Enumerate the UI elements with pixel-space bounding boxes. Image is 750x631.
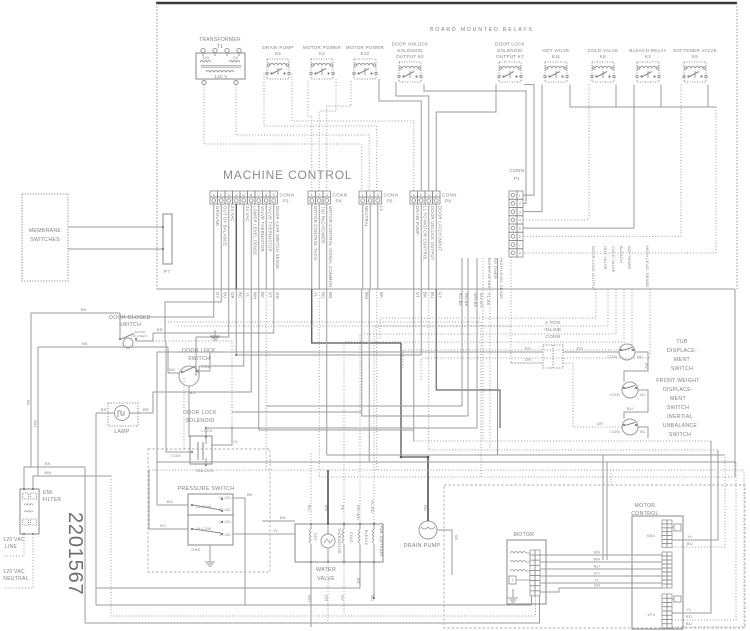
svg-text:OR: OR [525,357,532,362]
svg-text:GY: GY [160,523,166,528]
svg-text:K11: K11 [552,54,561,59]
svg-text:WH: WH [44,470,51,475]
svg-text:CONN: CONN [280,193,295,198]
svg-text:L1: L1 [379,206,384,212]
svg-text:DOOR UNLOCK OUTPUT: DOOR UNLOCK OUTPUT [430,206,435,261]
svg-text:NC: NC [637,355,643,359]
svg-text:SOFTENER VALVE: SOFTENER VALVE [673,48,717,53]
svg-text:T1: T1 [217,44,223,50]
svg-text:MOTOR CONTROL SIGNAL COMMON: MOTOR CONTROL SIGNAL COMMON [328,206,333,287]
svg-text:THERMISTOR: THERMISTOR [337,528,341,554]
svg-text:NO: NO [169,367,176,372]
svg-text:CONN: CONN [510,168,525,173]
svg-text:7: 7 [519,243,521,247]
svg-text:GY: GY [215,292,220,299]
svg-text:BR: BR [157,327,163,332]
svg-text:PRESSURE SWITCH: PRESSURE SWITCH [178,486,235,492]
svg-text:COM: COM [171,454,181,458]
svg-text:CONN: CONN [545,334,561,340]
svg-text:BU: BU [686,621,692,626]
svg-text:RD: RD [577,346,583,351]
svg-text:COM: COM [610,393,620,397]
svg-text:17-NC: 17-NC [219,533,231,537]
svg-text:24V: 24V [202,56,210,60]
svg-text:L1 TO MOTOR CONTROL: L1 TO MOTOR CONTROL [422,206,427,261]
svg-text:NEUTRAL: NEUTRAL [3,576,28,582]
svg-text:K3: K3 [645,54,651,59]
svg-text:120 VAC: 120 VAC [3,537,25,543]
svg-text:VT: VT [267,292,272,298]
svg-text:BR: BR [356,578,361,584]
svg-text:EMI: EMI [43,490,53,496]
svg-text:24-NO: 24-NO [219,496,231,500]
svg-text:OUTPUT K7: OUTPUT K7 [496,54,524,59]
svg-text:WH: WH [593,557,600,562]
svg-text:BU: BU [594,564,600,569]
svg-text:24 VAC: 24 VAC [245,206,250,222]
svg-text:YL: YL [687,534,693,539]
svg-text:MENT: MENT [670,396,686,402]
svg-text:SOLENOID: SOLENOID [497,48,523,53]
svg-text:DOOR CLOSED: DOOR CLOSED [109,315,151,321]
svg-text:OR: OR [230,292,235,299]
svg-text:P6: P6 [387,199,393,204]
svg-text:TUB: TUB [676,339,688,345]
svg-text:K2: K2 [319,51,325,56]
svg-text:K5: K5 [275,51,281,56]
svg-text:TxD RxD POWER: TxD RxD POWER [320,206,325,243]
svg-text:VALVE THERMISTOR: VALVE THERMISTOR [260,206,265,252]
svg-text:SWITCH: SWITCH [667,405,689,411]
svg-text:GND: GND [191,548,200,552]
svg-text:RD: RD [237,292,242,299]
svg-text:YL: YL [245,292,250,298]
svg-text:DOOR UNLOCK: DOOR UNLOCK [392,42,429,47]
svg-text:MACHINE CONTROL: MACHINE CONTROL [223,168,352,182]
svg-text:RD: RD [525,346,531,351]
svg-text:DOOR LATCH INPUT: DOOR LATCH INPUT [437,206,442,251]
svg-text:SOFTENER: SOFTENER [627,246,632,269]
svg-text:BK: BK [260,292,265,298]
svg-text:BU: BU [627,406,633,411]
svg-text:VALVE: VALVE [317,576,335,582]
svg-text:T: T [511,578,514,583]
svg-text:FILTER: FILTER [43,497,62,503]
svg-text:HOT VALVE: HOT VALVE [542,48,569,53]
svg-text:RD-WH: RD-WH [356,505,361,520]
svg-text:COM: COM [607,355,617,359]
svg-text:BU: BU [430,292,435,298]
svg-text:BU-BK: BU-BK [458,293,463,306]
svg-text:TRANSFORMER: TRANSFORMER [199,37,241,43]
svg-text:BK: BK [81,307,87,312]
svg-text:P1: P1 [514,176,520,181]
svg-text:DISPLACE-: DISPLACE- [667,348,697,354]
svg-text:GY: GY [437,292,442,299]
svg-text:BK: BK [82,341,88,346]
svg-text:CONN: CONN [333,193,348,198]
svg-text:P7: P7 [164,269,170,274]
svg-text:LAMP: LAMP [114,429,130,435]
svg-text:6: 6 [519,235,521,239]
svg-text:BU: BU [222,292,227,298]
svg-text:WATER: WATER [316,567,336,573]
svg-text:GN: GN [275,292,280,299]
svg-text:RD: RD [423,505,428,511]
svg-text:SWITCH: SWITCH [669,432,691,438]
svg-text:BK: BK [422,292,427,298]
svg-text:2: 2 [519,202,521,206]
svg-text:BU: BU [687,541,693,546]
svg-text:BLEACH: BLEACH [619,246,624,263]
svg-text:FAB. SOFTENER: FAB. SOFTENER [379,526,383,557]
svg-text:GY: GY [594,571,600,576]
svg-text:COM: COM [610,430,620,434]
svg-text:MOTOR POWER: MOTOR POWER [346,45,385,50]
svg-text:HOT VALVE: HOT VALVE [603,246,608,270]
svg-text:CONN: CONN [384,193,399,198]
svg-text:120 VAC: 120 VAC [3,569,25,575]
svg-text:120 V: 120 V [215,74,228,79]
svg-text:BU: BU [167,499,173,504]
svg-text:BR: BR [101,407,107,412]
svg-text:YL: YL [233,439,239,444]
svg-text:WH: WH [364,292,369,300]
svg-text:MEMBRANE: MEMBRANE [29,228,62,234]
svg-text:P3: P3 [283,199,289,204]
svg-text:GY: GY [644,363,649,369]
svg-text:DOOR LOCK: DOOR LOCK [495,42,525,47]
svg-text:BK: BK [45,461,51,466]
svg-text:DRAIN PUMP: DRAIN PUMP [262,45,293,50]
svg-text:MOTOR: MOTOR [635,503,656,509]
svg-text:RD: RD [686,614,692,619]
svg-text:OUTPUT K4: OUTPUT K4 [396,54,424,59]
svg-text:FRONT WEIGHT: FRONT WEIGHT [656,378,700,384]
svg-text:NEUTRAL: NEUTRAL [364,206,369,228]
svg-text:4: 4 [519,219,521,223]
svg-text:SWITCH: SWITCH [188,356,210,362]
svg-text:JP4: JP4 [647,612,655,617]
svg-text:24 VAC: 24 VAC [230,206,235,222]
svg-text:2 POS: 2 POS [545,320,561,326]
svg-text:BK: BK [379,292,384,298]
svg-text:2V: 2V [234,56,239,60]
svg-text:K6: K6 [600,54,606,59]
svg-text:HIGH LEVEL SENSE: HIGH LEVEL SENSE [499,258,504,299]
svg-text:BU: BU [307,505,312,511]
svg-text:BK: BK [454,535,459,541]
svg-text:SOLENOID: SOLENOID [185,418,214,424]
svg-text:LINE: LINE [5,544,18,550]
svg-text:DOOR LOCK: DOOR LOCK [182,348,216,354]
svg-text:YL: YL [273,528,279,533]
svg-text:P4: P4 [336,199,342,204]
svg-text:INLINE: INLINE [544,327,561,333]
svg-text:OUT OF BALANCE: OUT OF BALANCE [222,206,227,246]
svg-text:PK: PK [340,505,345,511]
svg-text:MOTOR POWER: MOTOR POWER [303,45,342,50]
svg-text:XB4: XB4 [647,533,656,538]
svg-text:2201567: 2201567 [64,512,86,595]
svg-text:BK: BK [247,492,253,497]
svg-text:YL: YL [313,292,318,298]
svg-text:VT: VT [415,292,420,298]
svg-text:WH: WH [307,595,312,602]
svg-text:SWITCH: SWITCH [671,366,693,372]
svg-text:VALVE THERMISTOR: VALVE THERMISTOR [267,206,272,252]
svg-text:BN: BN [594,550,600,555]
svg-text:YL-RD: YL-RD [370,500,375,513]
svg-text:BK: BK [26,400,31,406]
svg-text:UNBALANCE: UNBALANCE [663,423,698,429]
svg-text:INERTIAL: INERTIAL [667,414,693,420]
svg-text:COLD VALVE: COLD VALVE [611,246,616,273]
svg-text:SOLENOID: SOLENOID [397,48,423,53]
svg-text:LOCK: LOCK [201,429,213,433]
svg-text:BLEACH: BLEACH [364,530,368,546]
svg-text:LOWER LEVEL SENSE: LOWER LEVEL SENSE [252,206,257,255]
svg-text:SWITCHES: SWITCHES [30,237,60,243]
svg-text:SWITCH: SWITCH [119,322,141,328]
svg-text:1: 1 [519,194,521,198]
svg-text:8: 8 [519,252,521,256]
svg-text:MOTOR: MOTOR [514,532,535,538]
svg-text:CLOSED: CLOSED [133,334,148,338]
svg-text:3: 3 [519,210,521,214]
svg-text:COLD VALVE: COLD VALVE [588,48,619,53]
svg-text:DRAIN PUMP: DRAIN PUMP [404,543,441,549]
svg-text:WH: WH [33,420,38,427]
svg-text:WH: WH [252,292,257,300]
svg-text:5: 5 [519,227,521,231]
svg-text:14-NO: 14-NO [219,520,231,524]
svg-text:P8: P8 [445,199,451,204]
svg-text:RD: RD [320,292,325,299]
svg-text:CONN: CONN [442,193,457,198]
svg-text:NC: NC [640,393,646,397]
svg-text:K8: K8 [692,54,698,59]
svg-text:GY: GY [340,595,345,601]
svg-text:HOT: HOT [313,533,317,542]
svg-text:COLD: COLD [349,532,353,543]
svg-text:DOOR LOCK: DOOR LOCK [183,410,217,416]
svg-text:BOARD MOUNTED RELAYS: BOARD MOUNTED RELAYS [430,27,534,33]
svg-text:DRAIN PUMP: DRAIN PUMP [415,206,420,235]
svg-text:K12: K12 [361,51,370,56]
svg-text:GN: GN [594,583,601,588]
svg-text:BK: BK [280,515,286,520]
svg-text:OR: OR [597,421,604,426]
svg-text:HIGH LEVEL SENSE: HIGH LEVEL SENSE [645,246,650,287]
svg-text:NC: NC [640,430,646,434]
svg-text:DOOR AJAR SWITCH SENSE: DOOR AJAR SWITCH SENSE [275,206,280,269]
svg-text:BN: BN [324,505,329,511]
svg-text:YL: YL [686,607,692,612]
svg-text:BN: BN [328,292,333,298]
svg-text:MENT: MENT [674,357,690,363]
svg-text:BLEACH RELAY: BLEACH RELAY [629,48,666,53]
svg-text:GROUND: GROUND [215,206,220,226]
svg-text:OR: OR [324,595,329,601]
svg-text:MOTOR CONTROL TACH: MOTOR CONTROL TACH [313,206,318,260]
svg-text:BR: BR [143,407,149,412]
svg-text:DISPLACE-: DISPLACE- [663,387,693,393]
